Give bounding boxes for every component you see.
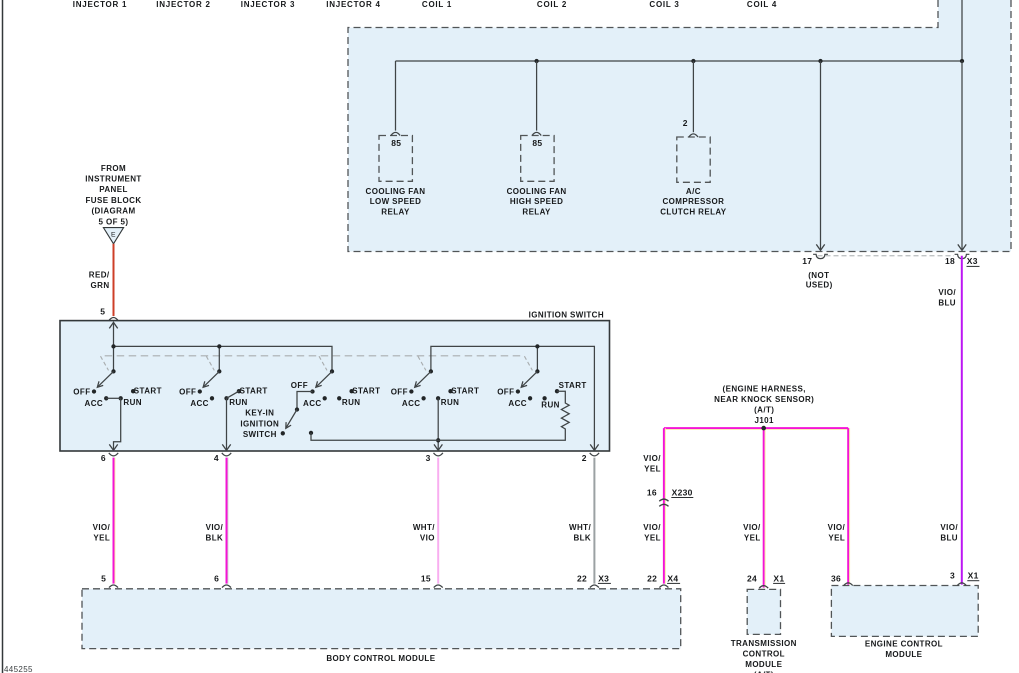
svg-text:RUN: RUN	[123, 398, 142, 407]
svg-text:VIO/: VIO/	[938, 288, 956, 297]
svg-text:2: 2	[683, 118, 688, 128]
svg-text:6: 6	[101, 453, 106, 463]
svg-text:INSTRUMENT: INSTRUMENT	[85, 175, 141, 184]
svg-text:IGNITION: IGNITION	[240, 419, 279, 428]
svg-text:OFF: OFF	[179, 387, 196, 396]
svg-text:COOLING FAN: COOLING FAN	[366, 187, 426, 196]
svg-text:COMPRESSOR: COMPRESSOR	[663, 197, 725, 206]
svg-text:BLU: BLU	[940, 533, 958, 542]
svg-text:FUSE BLOCK: FUSE BLOCK	[86, 196, 142, 205]
svg-text:E: E	[111, 232, 116, 239]
svg-text:3: 3	[950, 571, 955, 581]
svg-text:WHT/: WHT/	[569, 523, 591, 532]
svg-text:USED): USED)	[806, 281, 833, 290]
svg-text:ACC: ACC	[303, 399, 322, 408]
svg-text:COIL 1: COIL 1	[422, 0, 452, 9]
svg-text:OFF: OFF	[291, 381, 308, 390]
svg-text:FROM: FROM	[101, 164, 126, 173]
svg-text:4: 4	[214, 453, 219, 463]
svg-text:ACC: ACC	[85, 399, 104, 408]
svg-text:VIO/: VIO/	[643, 454, 661, 463]
svg-text:(DIAGRAM: (DIAGRAM	[91, 207, 135, 216]
svg-text:RELAY: RELAY	[381, 208, 410, 217]
svg-text:PANEL: PANEL	[99, 185, 128, 194]
svg-text:5: 5	[100, 306, 105, 316]
svg-text:VIO: VIO	[420, 533, 435, 542]
svg-text:(ENGINE HARNESS,: (ENGINE HARNESS,	[723, 384, 806, 393]
svg-text:(NOT: (NOT	[808, 271, 829, 280]
svg-text:IGNITION SWITCH: IGNITION SWITCH	[529, 310, 604, 319]
svg-text:2: 2	[582, 453, 587, 463]
svg-text:22: 22	[577, 573, 587, 583]
svg-text:YEL: YEL	[644, 464, 661, 473]
svg-text:SWITCH: SWITCH	[243, 430, 277, 439]
svg-text:OFF: OFF	[497, 387, 514, 396]
svg-text:VIO/: VIO/	[93, 523, 111, 532]
svg-text:15: 15	[421, 573, 431, 583]
svg-text:85: 85	[391, 138, 401, 148]
svg-text:BODY CONTROL MODULE: BODY CONTROL MODULE	[326, 654, 435, 663]
svg-text:INJECTOR 3: INJECTOR 3	[241, 0, 295, 9]
svg-text:RUN: RUN	[342, 398, 361, 407]
svg-text:VIO/: VIO/	[643, 523, 661, 532]
svg-text:CONTROL: CONTROL	[743, 649, 785, 658]
svg-text:NEAR KNOCK SENSOR): NEAR KNOCK SENSOR)	[714, 395, 814, 404]
svg-text:RUN: RUN	[441, 398, 460, 407]
svg-text:WHT/: WHT/	[413, 523, 435, 532]
svg-text:X4: X4	[667, 573, 678, 583]
svg-text:OFF: OFF	[73, 387, 90, 396]
svg-text:START: START	[134, 387, 162, 396]
svg-text:VIO/: VIO/	[743, 523, 761, 532]
svg-text:START: START	[240, 387, 268, 396]
svg-text:85: 85	[532, 138, 542, 148]
svg-text:COIL 2: COIL 2	[537, 0, 567, 9]
svg-text:LOW SPEED: LOW SPEED	[370, 197, 422, 206]
svg-text:VIO/: VIO/	[828, 523, 846, 532]
svg-text:VIO/: VIO/	[940, 523, 958, 532]
svg-text:YEL: YEL	[744, 533, 761, 542]
svg-text:KEY-IN: KEY-IN	[245, 409, 274, 418]
svg-text:TRANSMISSION: TRANSMISSION	[731, 639, 797, 648]
svg-text:18: 18	[945, 256, 955, 266]
svg-text:MODULE: MODULE	[885, 650, 922, 659]
svg-text:COOLING FAN: COOLING FAN	[507, 187, 567, 196]
svg-text:A/C: A/C	[686, 187, 701, 196]
svg-text:RUN: RUN	[229, 398, 248, 407]
svg-text:X230: X230	[672, 487, 693, 497]
svg-text:CLUTCH RELAY: CLUTCH RELAY	[660, 208, 727, 217]
svg-text:HIGH SPEED: HIGH SPEED	[510, 197, 563, 206]
svg-text:X1: X1	[773, 573, 784, 583]
svg-text:ACC: ACC	[402, 399, 421, 408]
svg-text:RELAY: RELAY	[522, 208, 551, 217]
svg-text:ACC: ACC	[508, 399, 527, 408]
svg-text:6: 6	[214, 573, 219, 583]
svg-text:MODULE: MODULE	[745, 660, 782, 669]
svg-text:24: 24	[747, 573, 757, 583]
svg-text:START: START	[559, 381, 587, 390]
svg-text:BLU: BLU	[938, 299, 956, 308]
svg-text:YEL: YEL	[93, 533, 110, 542]
svg-text:5: 5	[101, 573, 106, 583]
svg-text:22: 22	[647, 573, 657, 583]
svg-text:BLK: BLK	[573, 533, 591, 542]
svg-text:GRN: GRN	[91, 281, 110, 290]
svg-text:YEL: YEL	[644, 533, 661, 542]
svg-text:ACC: ACC	[190, 399, 209, 408]
svg-text:X1: X1	[968, 571, 979, 581]
svg-text:OFF: OFF	[391, 387, 408, 396]
svg-text:16: 16	[647, 487, 657, 497]
svg-text:COIL 3: COIL 3	[649, 0, 679, 9]
svg-text:(A/T): (A/T)	[754, 405, 774, 414]
svg-text:INJECTOR 4: INJECTOR 4	[326, 0, 380, 9]
svg-text:INJECTOR 2: INJECTOR 2	[156, 0, 210, 9]
svg-text:BLK: BLK	[206, 533, 224, 542]
svg-text:ENGINE CONTROL: ENGINE CONTROL	[865, 639, 943, 648]
svg-text:36: 36	[831, 573, 841, 583]
svg-text:COIL 4: COIL 4	[747, 0, 777, 9]
svg-text:17: 17	[802, 256, 812, 266]
svg-text:J101: J101	[754, 416, 774, 425]
svg-text:X3: X3	[598, 573, 609, 583]
svg-text:3: 3	[426, 453, 431, 463]
svg-text:5 OF 5): 5 OF 5)	[99, 217, 129, 226]
svg-text:RUN: RUN	[541, 400, 560, 409]
svg-text:START: START	[451, 387, 479, 396]
svg-text:INJECTOR 1: INJECTOR 1	[73, 0, 127, 9]
svg-text:YEL: YEL	[828, 533, 845, 542]
svg-text:START: START	[352, 387, 380, 396]
svg-text:445255: 445255	[4, 665, 33, 673]
svg-text:VIO/: VIO/	[206, 523, 224, 532]
svg-text:X3: X3	[967, 256, 978, 266]
svg-text:RED/: RED/	[89, 271, 110, 280]
